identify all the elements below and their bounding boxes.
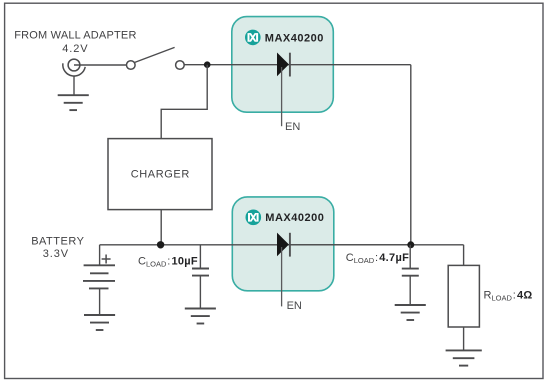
U2 EN pin stub <box>281 247 283 306</box>
diode D1 (U1) <box>277 53 290 77</box>
wire: bus down to battery <box>99 245 101 265</box>
svg-text:FROM WALL ADAPTER: FROM WALL ADAPTER <box>14 30 136 42</box>
diode D2 (U2) <box>277 233 290 257</box>
ground (wall adapter) <box>58 95 89 110</box>
ground (C1) <box>185 309 216 324</box>
battery bus wire <box>100 244 411 246</box>
wire: battery to ground <box>99 288 101 315</box>
wire: U2 output bus <box>290 244 464 246</box>
svg-text:4.2V: 4.2V <box>62 43 88 55</box>
wire: bus down to capacitor C1 <box>199 245 201 269</box>
svg-text:CHARGER: CHARGER <box>131 168 190 180</box>
op-amp U2 MAX40200 body <box>232 197 333 291</box>
wire: adapter to ground <box>73 76 75 95</box>
wire: wall adapter to switch <box>74 64 127 66</box>
wire: node A down to charger <box>161 65 207 139</box>
charger block <box>108 139 212 210</box>
label FROM WALL ADAPTER 4.2V <box>14 30 136 55</box>
op-amp U1 MAX40200 body <box>232 17 333 113</box>
wire: C2 to ground <box>409 276 411 305</box>
svg-text:EN: EN <box>287 300 302 312</box>
svg-text:MAX40200: MAX40200 <box>265 32 324 44</box>
wire: charger to battery bus <box>160 210 162 245</box>
wire: node C down to capacitor C2 <box>409 245 411 269</box>
svg-text:MAX40200: MAX40200 <box>265 212 324 224</box>
capacitor C1 10µF <box>192 269 209 276</box>
svg-text:BATTERY: BATTERY <box>31 236 84 248</box>
U1 Maxim logo <box>245 30 261 46</box>
node A junction (adapter/charger) <box>204 61 211 68</box>
wall adapter connector <box>63 59 85 76</box>
U2 Maxim logo <box>246 210 262 226</box>
capacitor C2 4.7µF <box>402 269 419 276</box>
ground (C2) <box>395 305 426 320</box>
node C junction (output) <box>407 241 414 248</box>
label BATTERY 3.3V <box>31 236 84 260</box>
wire: output down to resistor R1 <box>463 245 465 266</box>
switch <box>127 47 185 69</box>
wire: U1 output down to node C <box>410 65 412 245</box>
svg-text:EN: EN <box>285 121 300 133</box>
wire: C1 to ground <box>199 276 201 309</box>
ground (R load) <box>446 350 482 365</box>
wire: switch to U1 and output <box>184 64 410 66</box>
svg-text:3.3V: 3.3V <box>43 248 69 260</box>
battery BT1 3.3V <box>83 255 115 289</box>
node B junction (charger/battery) <box>157 241 164 248</box>
U1 EN pin stub <box>281 67 283 126</box>
resistor R LOAD <box>448 265 479 327</box>
wire: R1 to ground <box>463 327 465 350</box>
ground (battery) <box>84 315 115 330</box>
